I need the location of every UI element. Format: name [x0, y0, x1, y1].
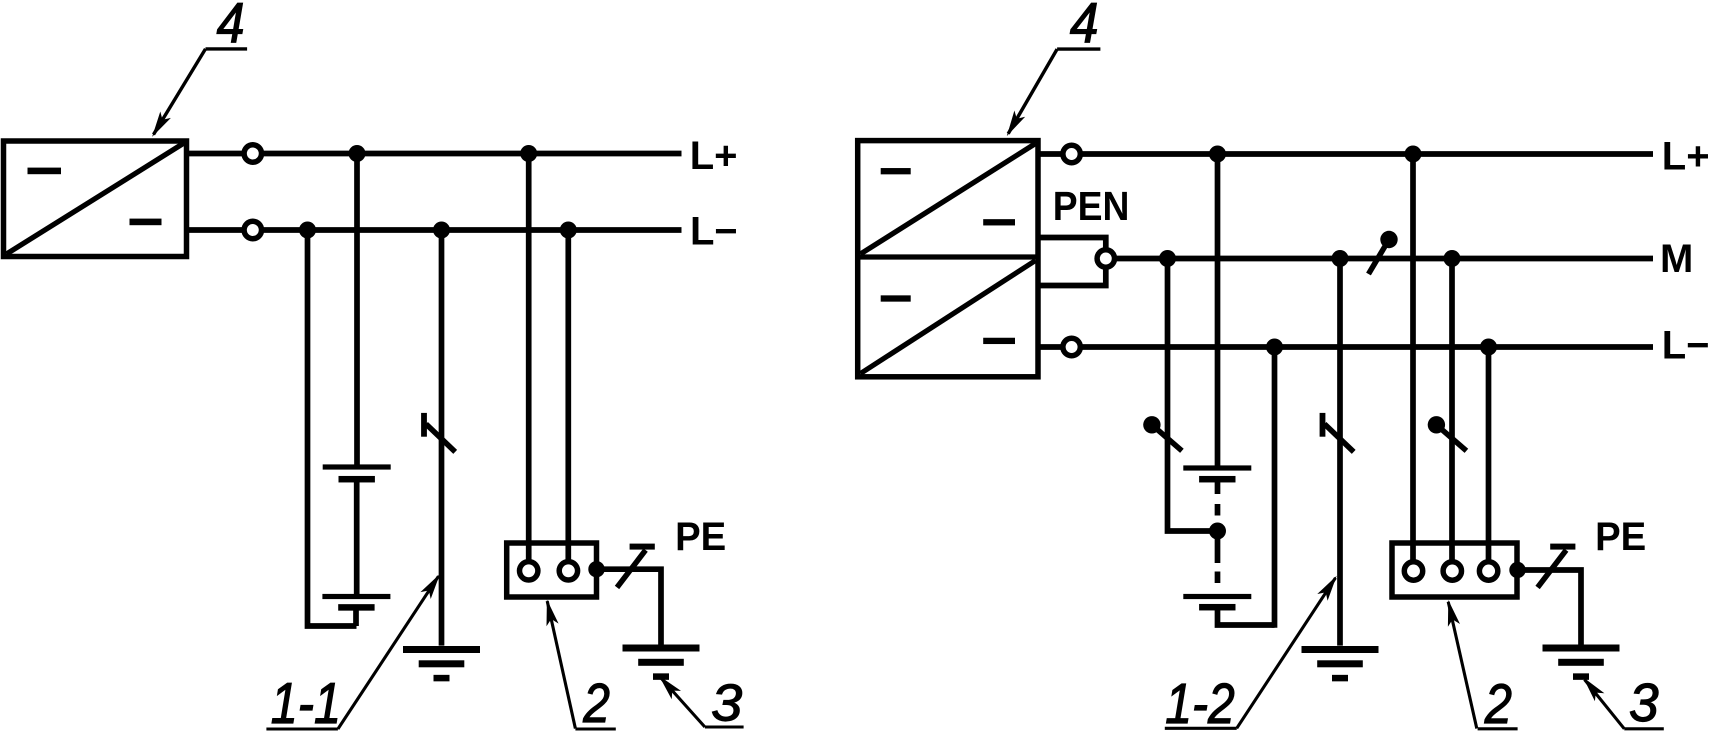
- svg-text:PEN: PEN: [1053, 185, 1130, 230]
- socket terminal circle 2 (left): [559, 562, 577, 580]
- leader line for label 3 (right): [1624, 727, 1664, 730]
- leader line for label 4 (right): [1057, 47, 1100, 50]
- wire M (right): [1106, 256, 1653, 262]
- disconnect (dot-slash) on M socket wire: [1428, 416, 1445, 433]
- converter U2 minus top-left: [881, 168, 911, 174]
- svg-text:4: 4: [217, 0, 245, 55]
- battery GB1 top cell plates: [323, 464, 391, 469]
- wire from L- down to socket (right): [1486, 347, 1492, 562]
- battery GB2 dashed link lower: [1215, 572, 1221, 584]
- wire from L- down to socket outlet: [565, 230, 571, 562]
- arrowhead for label 4 (right): [1007, 111, 1025, 137]
- PE disconnect slash (left): [617, 550, 646, 587]
- node on M at earthing conductor: [1332, 250, 1349, 267]
- terminal circle on L- (right): [1063, 338, 1080, 355]
- node on L- at battery loop: [299, 222, 316, 239]
- wire from L- down to battery bottom loop: [308, 230, 357, 626]
- leader line for label 3 (left): [705, 725, 744, 728]
- PEN terminal circle: [1097, 250, 1114, 267]
- node on L- at earthing conductor: [433, 222, 450, 239]
- converter U2 divider line: [858, 254, 1038, 259]
- earth electrode symbol (left, system earthing): [403, 646, 480, 653]
- terminal circle on L+ (right): [1063, 145, 1080, 162]
- node on M at socket drop (right): [1444, 250, 1461, 267]
- PE conductor wire (right): [1518, 570, 1582, 646]
- svg-text:2: 2: [582, 672, 610, 734]
- converter U2 top diagonal: [861, 144, 1036, 255]
- node on L+ at socket drop (right): [1405, 146, 1422, 163]
- terminal circle on L+ (left): [244, 145, 261, 162]
- battery GB1 bottom cell plates: [322, 594, 390, 599]
- switch (dot-slash) on M bus: [1380, 231, 1397, 248]
- leader line for label 4 (left): [206, 47, 248, 50]
- converter U2 outer box (right diagram power source): [858, 141, 1038, 377]
- converter U1 (left diagram power source box): [4, 141, 187, 257]
- battery GB2 dashed link upper: [1215, 504, 1221, 516]
- earth electrode symbol (right, system earthing): [1302, 646, 1379, 653]
- socket terminal circle 1 (right): [1404, 562, 1422, 580]
- battery GB1 bottom stub wire: [353, 607, 359, 626]
- wire from M down to earth (right system earthing): [1337, 259, 1343, 646]
- socket outlet box 2 (left, exposed-conductive-part): [507, 543, 597, 597]
- node on M at battery tap drop: [1159, 250, 1176, 267]
- arrowhead for label 1-1: [420, 574, 440, 599]
- socket terminal circle 2 (right): [1443, 562, 1461, 580]
- svg-text:L−: L−: [1662, 323, 1710, 367]
- node on L- at socket drop (right): [1480, 339, 1497, 356]
- wire from L+ down to battery top (right): [1215, 154, 1221, 466]
- node on L+ at socket drop: [520, 145, 537, 162]
- wire from L+ down to socket outlet: [526, 154, 532, 563]
- svg-text:4: 4: [1070, 0, 1099, 55]
- converter U2 minus mid-right: [983, 219, 1015, 225]
- svg-text:3: 3: [1629, 674, 1659, 733]
- node on L+ at battery drop: [349, 145, 366, 162]
- svg-text:L−: L−: [690, 210, 738, 254]
- terminal circle on L- (left): [244, 221, 261, 238]
- svg-text:PE: PE: [675, 515, 726, 559]
- svg-text:2: 2: [1484, 674, 1512, 735]
- wire from L+ down to battery top: [354, 154, 360, 468]
- node PE tap on socket box (left): [588, 561, 604, 577]
- wire L+ (right): [1038, 151, 1653, 157]
- wire from L- down to earth (functional earthing conductor): [439, 230, 445, 646]
- wire from L- down to battery bottom (right): [1272, 347, 1278, 628]
- leader line for label 1-1: [266, 727, 338, 730]
- svg-text:L+: L+: [690, 134, 738, 178]
- node PE tap on socket box (right): [1509, 562, 1525, 578]
- wire L- (left): [187, 227, 682, 233]
- converter U2 minus mid-left: [881, 295, 911, 301]
- disconnect symbol on earthing conductor (right): [1320, 413, 1326, 437]
- socket outlet box 2 (right, exposed-conductive-part): [1392, 543, 1517, 597]
- leader line for label 2 (right): [1448, 602, 1477, 729]
- disconnect symbol on earthing conductor (left): [421, 413, 427, 437]
- battery GB2 link stub below short plate: [1215, 479, 1221, 494]
- wire L- (right): [1038, 344, 1653, 350]
- earth electrode symbol (right PE): [1543, 645, 1620, 652]
- svg-text:3: 3: [711, 675, 742, 733]
- arrowhead for label 3 (right): [1583, 677, 1604, 701]
- battery GB1 middle connector wire: [354, 479, 360, 596]
- converter U2 minus bottom-right: [983, 338, 1015, 344]
- svg-text:PE: PE: [1595, 515, 1646, 559]
- converter U2 bottom diagonal: [861, 261, 1036, 374]
- svg-text:M: M: [1660, 237, 1693, 281]
- arrowhead for label 2 (left): [547, 600, 559, 627]
- PE conductor wire (left): [597, 569, 662, 645]
- svg-text:1-2: 1-2: [1165, 674, 1234, 735]
- disconnect (dot-slash) on battery mid tap wire: [1143, 416, 1160, 433]
- converter U1 minus sign top-left: [28, 168, 62, 175]
- wire from L+ down to socket (right): [1410, 154, 1416, 562]
- node on L- at battery bottom drop: [1266, 339, 1283, 356]
- arrowhead for label 3 (left): [659, 676, 681, 700]
- wire from M down to battery mid tap: [1168, 259, 1218, 532]
- svg-text:1-1: 1-1: [271, 672, 341, 735]
- battery GB2 top cell plates: [1183, 465, 1251, 470]
- socket terminal circle 3 (right): [1479, 562, 1497, 580]
- PEN notch wires from converter: [1038, 238, 1106, 286]
- battery GB2 mid tap node: [1209, 523, 1226, 540]
- earth electrode symbol (left PE): [623, 645, 700, 652]
- wire L+ (left): [187, 151, 682, 157]
- battery GB2 bottom cell plates: [1183, 594, 1251, 599]
- battery GB2 link stub below tap node: [1215, 531, 1221, 563]
- svg-text:L+: L+: [1662, 134, 1710, 178]
- arrowhead for label 1-2: [1317, 576, 1336, 601]
- node on L- at socket drop: [560, 222, 577, 239]
- converter U1 diagonal: [7, 143, 185, 254]
- leader line for label 2 (left): [547, 601, 575, 729]
- arrowhead for label 4 (left): [152, 112, 171, 137]
- battery GB2 bottom stub wire: [1218, 607, 1275, 625]
- converter U1 minus sign bottom-right: [130, 219, 162, 226]
- leader line for label 1-2: [1165, 727, 1237, 730]
- wire from M down to socket (right): [1449, 259, 1455, 563]
- PE disconnect slash (right): [1538, 550, 1567, 587]
- node on L+ at battery drop (right): [1209, 146, 1226, 163]
- socket terminal circle 1 (left): [520, 562, 538, 580]
- arrowhead for label 2 (right): [1448, 600, 1460, 627]
